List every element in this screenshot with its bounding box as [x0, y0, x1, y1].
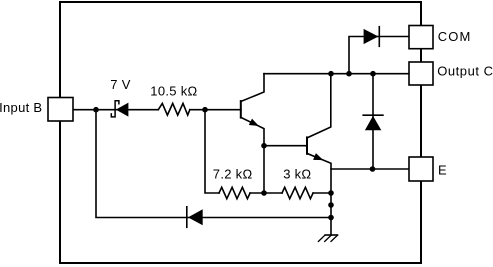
- svg-text:10.5 kΩ: 10.5 kΩ: [150, 83, 197, 98]
- svg-text:3 kΩ: 3 kΩ: [283, 166, 311, 181]
- svg-text:Output C: Output C: [437, 64, 493, 79]
- svg-text:7.2 kΩ: 7.2 kΩ: [213, 166, 253, 181]
- svg-text:Input B: Input B: [0, 100, 42, 115]
- svg-text:COM: COM: [438, 29, 472, 44]
- svg-text:7 V: 7 V: [110, 77, 130, 92]
- svg-text:E: E: [438, 163, 447, 178]
